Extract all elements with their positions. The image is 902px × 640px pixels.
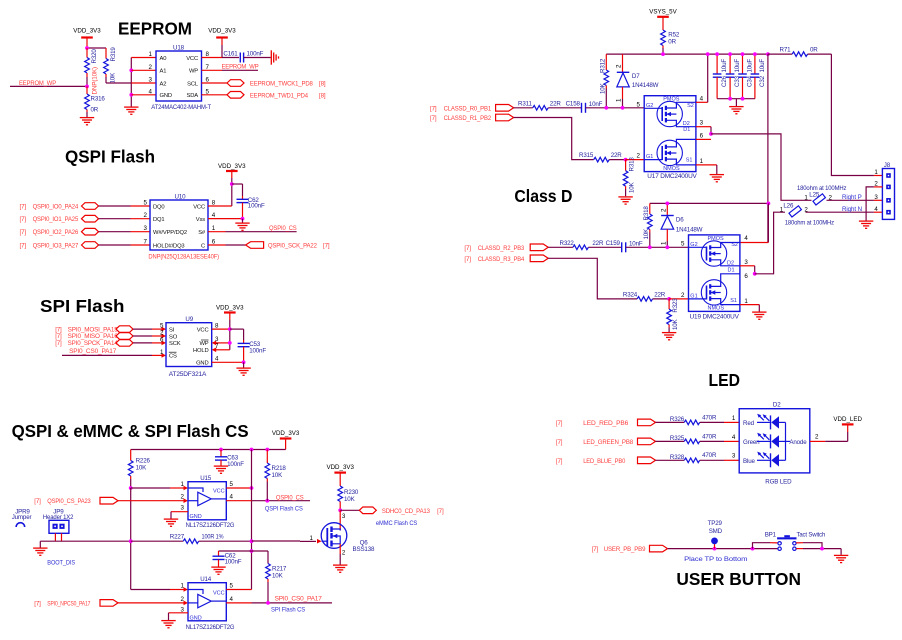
- node junction U19 D2/D1 output: [753, 272, 757, 276]
- power VDD_3V3 (EEPROM VCC): [208, 28, 236, 58]
- svg-text:[7]: [7]: [464, 245, 471, 252]
- svg-text:Vss: Vss: [196, 217, 205, 223]
- resistor R218 10K: [265, 450, 286, 501]
- svg-text:1: 1: [660, 241, 667, 245]
- port SPI0_SPCK_PA14: [55, 340, 133, 348]
- svg-text:R325: R325: [670, 435, 685, 442]
- svg-text:2: 2: [149, 64, 153, 71]
- ground BOOT_DIS: [33, 548, 47, 555]
- wire IO3 to HOLD#/DQ3: [99, 244, 151, 246]
- wire anode bus: [785, 422, 787, 460]
- ground (rotated) right of C161: [271, 50, 278, 64]
- svg-text:SPI0_CS0_PA17: SPI0_CS0_PA17: [69, 348, 117, 355]
- svg-text:4: 4: [215, 356, 219, 363]
- svg-text:VDD_LED: VDD_LED: [833, 416, 862, 423]
- svg-text:470R: 470R: [702, 414, 717, 421]
- svg-text:R328: R328: [670, 454, 685, 461]
- ground under U14: [161, 621, 175, 628]
- resistor R52 0R: [661, 30, 680, 54]
- svg-text:RGB LED: RGB LED: [765, 479, 792, 486]
- svg-text:D1: D1: [727, 268, 734, 274]
- port SPI0_MISO_PA16: [55, 333, 133, 341]
- svg-text:5: 5: [230, 481, 234, 488]
- svg-text:[8]: [8]: [319, 81, 326, 88]
- wire switch upper-left branch: [753, 543, 778, 549]
- svg-text:470R: 470R: [702, 433, 717, 440]
- svg-text:SDA: SDA: [187, 93, 199, 99]
- MOSFET pair U17 DMC2400UV: [637, 96, 704, 181]
- svg-text:TP29: TP29: [708, 520, 723, 527]
- wire L25 to J8 pin3 / net Right P: [827, 194, 883, 201]
- svg-text:AT24MAC402-MAHM-T: AT24MAC402-MAHM-T: [151, 104, 211, 111]
- svg-text:SPI0_CS0_PA17: SPI0_CS0_PA17: [275, 596, 323, 603]
- svg-text:1: 1: [780, 207, 784, 214]
- node junction R52/rail: [661, 52, 665, 56]
- wire pin2 anode: [810, 434, 848, 442]
- capacitor C62 100nF (lower): [213, 551, 242, 567]
- svg-text:USER BUTTON: USER BUTTON: [676, 569, 801, 589]
- buffer U14 NL17SZ126DFT2G: [181, 576, 235, 631]
- capacitor C32 10uF: [751, 54, 766, 99]
- svg-text:R230: R230: [344, 489, 359, 496]
- svg-text:GND: GND: [190, 616, 202, 622]
- svg-text:EEPROM_WP: EEPROM_WP: [19, 80, 56, 87]
- svg-text:VDD_3V3: VDD_3V3: [73, 28, 101, 35]
- wire MISO to SO: [133, 334, 166, 339]
- svg-text:4: 4: [230, 494, 234, 501]
- net SPI0_CS0_PA17 wire to CS: [62, 348, 166, 358]
- svg-text:[7]: [7]: [556, 439, 563, 446]
- node junction rail/U19 feed: [766, 52, 770, 56]
- svg-text:GND: GND: [196, 360, 208, 366]
- port QSPI0_IO3_PA27: [20, 242, 99, 250]
- ground under U19 S1: [752, 312, 766, 319]
- ferrite bead L26 180ohm at 100MHz: [780, 202, 834, 226]
- wire VDD to R319: [87, 47, 106, 49]
- svg-text:R313: R313: [629, 157, 636, 172]
- node junction GND pin: [129, 93, 133, 97]
- wire USER_PB net: [668, 548, 778, 550]
- ground under R323: [662, 333, 676, 340]
- wire R319 to address bus: [106, 82, 131, 84]
- wire pin VCC(8) U9: [212, 328, 230, 330]
- svg-text:3: 3: [874, 194, 878, 201]
- wire pin C(6): [208, 244, 246, 246]
- wire output Right N: [755, 212, 785, 274]
- switch BP1 Tact Switch: [765, 531, 826, 550]
- ground under R313: [618, 197, 632, 204]
- wire pin A2: [131, 82, 156, 84]
- svg-text:1: 1: [310, 535, 314, 542]
- resistor R326 470R: [656, 414, 740, 424]
- port LED_BLUE_PB0: [556, 457, 656, 465]
- svg-text:DQ1: DQ1: [153, 217, 164, 223]
- svg-text:J8: J8: [884, 162, 891, 169]
- svg-text:QSPI0_SCK_PA22: QSPI0_SCK_PA22: [268, 242, 318, 249]
- ground under R316: [80, 118, 94, 125]
- node junction mid rail/C62b row: [250, 549, 254, 553]
- svg-text:C159: C159: [606, 240, 621, 247]
- svg-text:0R: 0R: [91, 106, 99, 113]
- QSPI flash chip U10: [144, 194, 220, 261]
- svg-text:EEPROM: EEPROM: [118, 19, 192, 39]
- port EEPROM_TWCK1_PD8: [227, 80, 326, 88]
- LED red element: [757, 414, 786, 430]
- svg-text:6: 6: [160, 336, 164, 343]
- svg-text:S#: S#: [198, 230, 206, 236]
- svg-text:10K: 10K: [272, 573, 284, 580]
- svg-text:SPI Flash CS: SPI Flash CS: [271, 606, 305, 613]
- svg-text:4: 4: [230, 596, 234, 603]
- svg-text:NMOS: NMOS: [663, 166, 680, 172]
- svg-text:A1: A1: [160, 69, 167, 75]
- svg-text:QSPI0_CS: QSPI0_CS: [276, 494, 304, 501]
- wire U17 D2: [696, 127, 711, 134]
- power VDD_3V3 (Q6 drain): [326, 464, 354, 486]
- svg-text:USER_PB_PB9: USER_PB_PB9: [604, 546, 646, 553]
- svg-text:WP: WP: [199, 341, 208, 347]
- svg-text:GND: GND: [190, 514, 202, 520]
- wire mid rail vertical: [251, 450, 253, 590]
- capacitor C63 100nF: [215, 450, 244, 469]
- ground under U15: [164, 519, 178, 526]
- svg-text:10K: 10K: [672, 318, 679, 330]
- svg-text:10K: 10K: [629, 181, 636, 193]
- SPI flash chip U9: [160, 316, 219, 378]
- node junction C33 bottom: [728, 97, 732, 101]
- diode D7 1N4148W: [616, 54, 659, 108]
- svg-text:3: 3: [700, 120, 704, 127]
- svg-text:D7: D7: [632, 73, 640, 80]
- port LED_RED_PB6: [556, 419, 656, 427]
- wire +5V feed row to R318/D6: [650, 202, 769, 204]
- svg-text:BOOT_DIS: BOOT_DIS: [47, 560, 75, 567]
- node junction VCC rail: [228, 327, 232, 331]
- node junction D6 top/feed row: [665, 202, 669, 206]
- svg-text:C: C: [201, 243, 205, 249]
- ground USER BUTTON: [834, 555, 848, 562]
- ground under C53: [236, 362, 250, 375]
- svg-text:1N4148W: 1N4148W: [676, 227, 703, 234]
- svg-text:10K: 10K: [272, 472, 284, 479]
- wire address bus: [130, 58, 132, 107]
- svg-text:QSPI Flash: QSPI Flash: [65, 147, 155, 167]
- svg-text:1: 1: [732, 415, 736, 422]
- wire pin GND: [131, 94, 156, 96]
- svg-text:U10: U10: [175, 194, 187, 201]
- wire vertical to U19 S2: [740, 203, 769, 242]
- wire pin SDA(5): [202, 94, 228, 96]
- capacitor C33 10uF: [726, 54, 741, 99]
- svg-text:[7]: [7]: [556, 458, 563, 465]
- node junction R227/mid rail: [250, 539, 254, 543]
- wire pin Vss(4) U10: [208, 218, 243, 220]
- wire U17 S1 to ground: [696, 165, 717, 174]
- svg-text:VDD_3V3: VDD_3V3: [216, 305, 244, 312]
- wire pin GND(4) U9: [212, 361, 244, 363]
- node junction A1: [129, 68, 133, 72]
- svg-text:3: 3: [144, 225, 148, 232]
- node junction rail/C63: [219, 448, 223, 452]
- svg-text:1: 1: [616, 98, 623, 102]
- wire pin WP(7) / net EEPROM_WP: [202, 64, 259, 71]
- svg-text:VDD_3V3: VDD_3V3: [272, 430, 300, 437]
- header JP9 1X2: [43, 508, 74, 541]
- svg-text:R226: R226: [136, 458, 151, 465]
- wire pin SCL(6): [202, 82, 228, 84]
- svg-text:3: 3: [732, 453, 736, 460]
- svg-text:SCL: SCL: [187, 81, 199, 87]
- transistor Q6 BSS138: [310, 510, 375, 564]
- svg-text:1N4148W: 1N4148W: [632, 82, 659, 89]
- svg-text:CLASSD_R1_PB2: CLASSD_R1_PB2: [444, 115, 492, 122]
- node junction Vss/C62/ground: [241, 217, 245, 221]
- node junction R315/R313/G1: [624, 158, 628, 162]
- svg-text:Right P: Right P: [842, 194, 862, 201]
- ground under J8: [859, 221, 873, 228]
- wire R227 row to Q6 gate: [252, 539, 322, 544]
- wire R1_PB2 to R315: [514, 118, 594, 160]
- svg-text:3: 3: [181, 505, 185, 512]
- svg-text:Place TP to Bottom: Place TP to Bottom: [684, 556, 747, 563]
- diode D6 1N4148W: [660, 203, 702, 247]
- svg-text:Jumper: Jumper: [12, 514, 32, 521]
- power VDD_3V3 (EEPROM pullups): [73, 28, 101, 49]
- svg-text:LED: LED: [709, 370, 741, 390]
- port CLASSD_R1_PB2: [430, 114, 514, 122]
- svg-text:1: 1: [700, 158, 704, 165]
- resistor R315 22R: [579, 152, 626, 162]
- wire SPCK to SCK: [133, 341, 166, 346]
- node junction R312/G2 net: [604, 106, 608, 110]
- svg-text:CLASSD_R2_PB3: CLASSD_R2_PB3: [478, 245, 525, 252]
- EEPROM chip U18: [149, 45, 212, 112]
- port LED_GREEN_PB8: [556, 438, 656, 446]
- svg-text:7: 7: [144, 239, 148, 246]
- svg-text:[7]: [7]: [55, 340, 62, 347]
- node junction pin4/R217: [266, 601, 270, 605]
- node junction D6/G2 net: [665, 245, 669, 249]
- wire CS_PA23 to U15 pin2: [118, 498, 188, 503]
- wire VCC to C161: [222, 57, 239, 59]
- svg-text:[7]: [7]: [34, 498, 41, 505]
- svg-text:SPI Flash: SPI Flash: [40, 296, 125, 316]
- svg-text:10nF: 10nF: [629, 240, 643, 247]
- wire pin VCC(8): [202, 57, 223, 59]
- resistor R328 470R: [656, 452, 740, 462]
- svg-text:SPI0_SPCK_PA14: SPI0_SPCK_PA14: [68, 340, 119, 347]
- MOSFET pair U19 DMC2400UV: [681, 235, 748, 320]
- port QSPI0_IO0_PA24: [20, 203, 99, 211]
- svg-text:[7]: [7]: [20, 229, 27, 236]
- svg-text:QSPI0_IO1_PA25: QSPI0_IO1_PA25: [33, 216, 79, 223]
- svg-text:QSPI0_CS: QSPI0_CS: [269, 225, 297, 232]
- resistor R320: [85, 48, 99, 95]
- svg-text:QSPI0_IO0_PA24: QSPI0_IO0_PA24: [33, 203, 79, 210]
- svg-text:R316: R316: [91, 95, 106, 102]
- svg-text:1: 1: [181, 481, 185, 488]
- resistor R316: [85, 86, 106, 117]
- ground under lower C62: [211, 567, 225, 574]
- node junction TP29: [713, 547, 717, 551]
- svg-text:2: 2: [342, 550, 346, 557]
- port CLASSD_R0_PB1: [430, 105, 514, 113]
- svg-text:BSS138: BSS138: [353, 546, 376, 553]
- svg-text:L26: L26: [783, 202, 794, 209]
- resistor R312 10K: [600, 54, 609, 108]
- svg-text:2: 2: [181, 494, 185, 501]
- svg-text:4: 4: [700, 96, 704, 103]
- svg-text:4: 4: [732, 434, 736, 441]
- svg-text:5: 5: [144, 200, 148, 207]
- svg-text:10nF: 10nF: [589, 101, 603, 108]
- wire U14 pin3 to ground: [169, 613, 189, 620]
- ground under U17 S1: [710, 175, 724, 182]
- node junction C26/rail: [715, 52, 719, 56]
- svg-text:Green: Green: [743, 439, 760, 446]
- svg-text:R52: R52: [668, 32, 680, 39]
- svg-text:[7]: [7]: [323, 242, 330, 249]
- node junction GND/C53: [242, 360, 246, 364]
- node junction R320/R316/EEPROM_WP: [85, 85, 89, 89]
- svg-text:10K: 10K: [600, 82, 607, 94]
- svg-text:1: 1: [149, 51, 153, 58]
- svg-text:W#/VPP/DQ2: W#/VPP/DQ2: [153, 230, 187, 236]
- wire IO1 to DQ1: [99, 218, 151, 220]
- net EEPROM_WP wire: [10, 80, 87, 87]
- ferrite bead L25 180ohm at 100MHz: [797, 185, 846, 205]
- node junction VDD_3V3/R320/R319: [85, 46, 89, 50]
- svg-text:QSPI & eMMC & SPI Flash CS: QSPI & eMMC & SPI Flash CS: [12, 421, 249, 441]
- port SDHC0_CD_PA13: [359, 507, 444, 527]
- node junction S2 drop/rail: [706, 52, 710, 56]
- svg-text:R318: R318: [643, 206, 650, 221]
- node junction R226/U15 pin1: [129, 486, 133, 490]
- svg-text:100nF: 100nF: [227, 461, 244, 468]
- svg-text:DQ0: DQ0: [153, 204, 164, 210]
- ground under C62: [235, 219, 249, 231]
- resistor R71 0R: [768, 47, 832, 57]
- svg-text:10uF: 10uF: [734, 59, 741, 73]
- svg-text:VCC: VCC: [186, 56, 198, 62]
- wire 5V rail: [606, 53, 768, 55]
- svg-text:Right N: Right N: [842, 206, 862, 213]
- ground under address bus: [124, 107, 138, 114]
- node junction switch right: [820, 547, 824, 551]
- svg-text:VCC: VCC: [213, 489, 225, 495]
- port QSPI0_CS_PA23: [34, 497, 118, 505]
- wire to SDHC0 port: [340, 509, 359, 511]
- svg-text:100nF: 100nF: [225, 559, 242, 566]
- wire L26 to J8 pin4 / net Right N: [806, 206, 883, 213]
- svg-text:[7]: [7]: [20, 216, 27, 223]
- wire output Right P: [711, 134, 812, 200]
- svg-text:3: 3: [342, 513, 346, 520]
- port QSPI0_SCK_PA22: [246, 242, 330, 250]
- resistor R324 22R: [623, 291, 669, 301]
- svg-text:LED_BLUE_PB0: LED_BLUE_PB0: [583, 458, 626, 465]
- wire pin WP(3) U9: [212, 341, 230, 346]
- svg-text:U17 DMC2400UV: U17 DMC2400UV: [647, 173, 697, 180]
- resistor R311 22R: [514, 100, 581, 110]
- svg-text:Red: Red: [743, 420, 755, 427]
- svg-text:22R: 22R: [592, 240, 604, 247]
- jumper JPR9: [12, 508, 32, 527]
- svg-text:R326: R326: [670, 416, 685, 423]
- svg-text:10uF: 10uF: [721, 59, 728, 73]
- svg-text:3: 3: [149, 77, 153, 84]
- svg-text:DNP(10K): DNP(10K): [92, 67, 99, 95]
- svg-text:QSPI0_IO3_PA27: QSPI0_IO3_PA27: [33, 242, 79, 249]
- svg-text:R71: R71: [780, 47, 792, 54]
- node junction VDD/C62 branch: [230, 182, 234, 186]
- wire to ground: [840, 549, 842, 555]
- resistor R217 10K: [266, 551, 287, 603]
- port EEPROM_TWD1_PD4: [227, 92, 326, 100]
- wire capacitor bottoms: [717, 98, 755, 100]
- capacitor C62 100nF: [237, 196, 265, 219]
- svg-text:R227: R227: [170, 533, 185, 540]
- svg-text:1: 1: [181, 583, 185, 590]
- wire IO2 to W#/VPP/DQ2: [99, 231, 151, 233]
- svg-text:Tact Switch: Tact Switch: [797, 531, 826, 538]
- resistor R230 10K: [338, 486, 359, 510]
- svg-text:CLASSD_R0_PB1: CLASSD_R0_PB1: [444, 105, 492, 112]
- svg-text:R323: R323: [672, 298, 679, 313]
- node junction rail/U15 VCC: [250, 448, 254, 452]
- wire switch lower-right branch: [796, 548, 841, 550]
- svg-text:[7]: [7]: [430, 105, 437, 112]
- svg-text:1: 1: [744, 298, 748, 305]
- power VDD_LED: [833, 416, 862, 442]
- svg-text:100nF: 100nF: [249, 348, 266, 355]
- capacitor C159 10nF: [606, 240, 689, 253]
- svg-text:22R: 22R: [550, 100, 562, 107]
- svg-text:SCK: SCK: [169, 341, 181, 347]
- svg-text:A2: A2: [160, 81, 167, 87]
- svg-text:DNP(N25Q128A13ESE40F): DNP(N25Q128A13ESE40F): [148, 254, 219, 261]
- svg-text:[7]: [7]: [20, 242, 27, 249]
- node junction R230/Q6/port: [338, 508, 342, 512]
- svg-text:D2: D2: [773, 402, 781, 409]
- svg-text:EEPROM_TWD1_PD4: EEPROM_TWD1_PD4: [250, 92, 309, 99]
- svg-text:0R: 0R: [810, 47, 818, 54]
- wire switch upper-right branch: [796, 543, 822, 549]
- wire R3_PB4 to R324: [548, 258, 637, 299]
- svg-text:NL17SZ126DFT2G: NL17SZ126DFT2G: [186, 522, 235, 529]
- svg-text:R218: R218: [272, 465, 287, 472]
- node junction pin5/mid rail: [250, 486, 254, 490]
- svg-text:C158: C158: [566, 100, 581, 107]
- svg-text:22R: 22R: [654, 291, 666, 298]
- svg-text:2: 2: [144, 212, 148, 219]
- wire left rail down: [130, 488, 132, 590]
- svg-text:100R 1%: 100R 1%: [202, 533, 224, 540]
- power VDD_3V3 (SPI): [216, 305, 244, 350]
- svg-text:A0: A0: [160, 56, 167, 62]
- svg-text:0R: 0R: [668, 39, 676, 46]
- svg-text:100nF: 100nF: [248, 203, 265, 210]
- test point TP29 SMD: [684, 520, 747, 563]
- svg-text:U15: U15: [200, 475, 212, 482]
- svg-text:10uF: 10uF: [759, 59, 766, 73]
- svg-text:R217: R217: [272, 566, 287, 573]
- wire U19 S1 to ground: [740, 305, 759, 312]
- wire JP9 to ground / BOOT_DIS: [40, 541, 130, 566]
- svg-text:LED_GREEN_PB8: LED_GREEN_PB8: [583, 439, 633, 446]
- svg-text:5: 5: [637, 101, 641, 108]
- svg-text:2: 2: [616, 64, 623, 68]
